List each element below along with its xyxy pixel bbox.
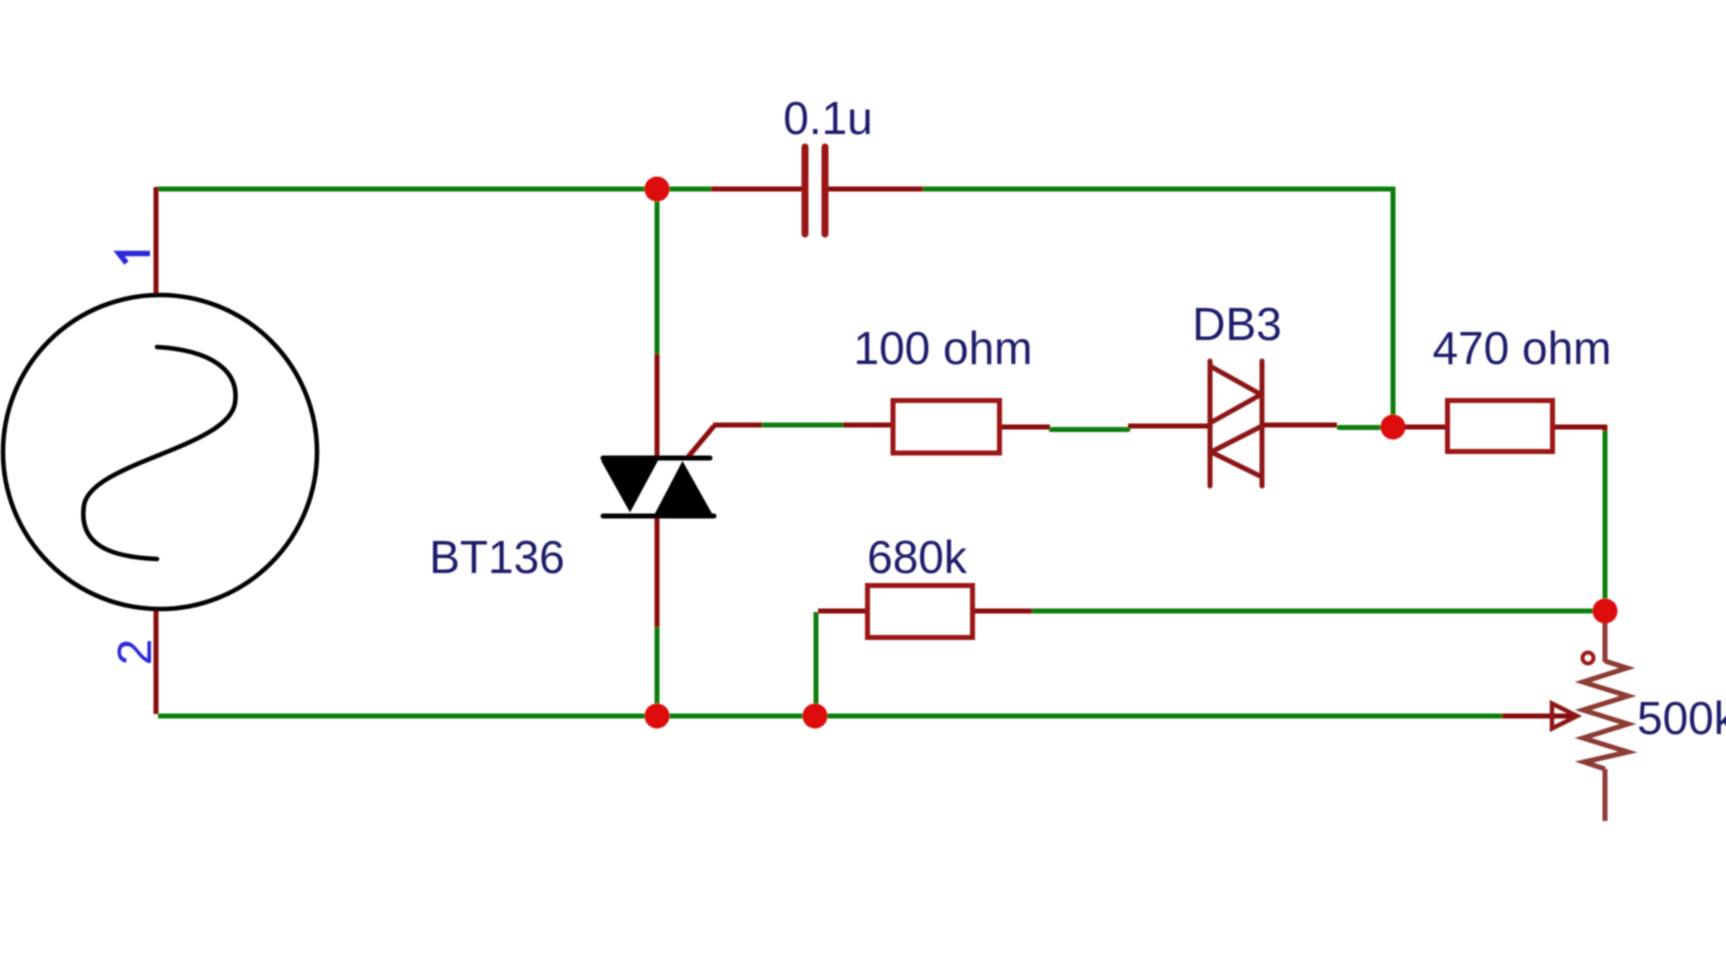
svg-text:0.1u: 0.1u <box>783 92 873 144</box>
svg-text:500k: 500k <box>1637 692 1726 744</box>
svg-text:680k: 680k <box>867 531 968 583</box>
svg-text:DB3: DB3 <box>1192 298 1281 350</box>
svg-text:470 ohm: 470 ohm <box>1432 322 1611 374</box>
svg-text:100 ohm: 100 ohm <box>853 322 1032 374</box>
svg-text:2: 2 <box>109 639 162 666</box>
svg-text:BT136: BT136 <box>429 531 565 583</box>
